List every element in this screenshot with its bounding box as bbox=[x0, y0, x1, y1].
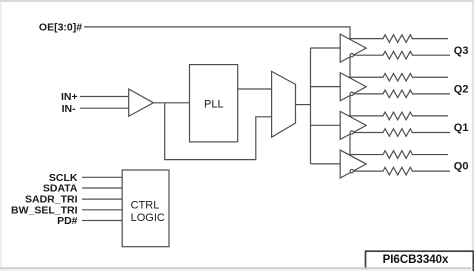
svg-text:IN-: IN- bbox=[62, 103, 77, 115]
svg-text:Q0: Q0 bbox=[454, 160, 469, 172]
svg-text:OE[3:0]#: OE[3:0]# bbox=[39, 22, 82, 34]
svg-text:Q2: Q2 bbox=[454, 84, 469, 96]
svg-text:Q3: Q3 bbox=[454, 45, 469, 57]
svg-text:LOGIC: LOGIC bbox=[131, 212, 165, 224]
svg-text:CTRL: CTRL bbox=[131, 199, 160, 211]
svg-text:IN+: IN+ bbox=[61, 91, 78, 103]
svg-text:PLL: PLL bbox=[204, 98, 224, 110]
svg-text:PI6CB3340x: PI6CB3340x bbox=[383, 254, 449, 266]
svg-text:Q1: Q1 bbox=[454, 122, 469, 134]
svg-text:PD#: PD# bbox=[57, 215, 78, 227]
